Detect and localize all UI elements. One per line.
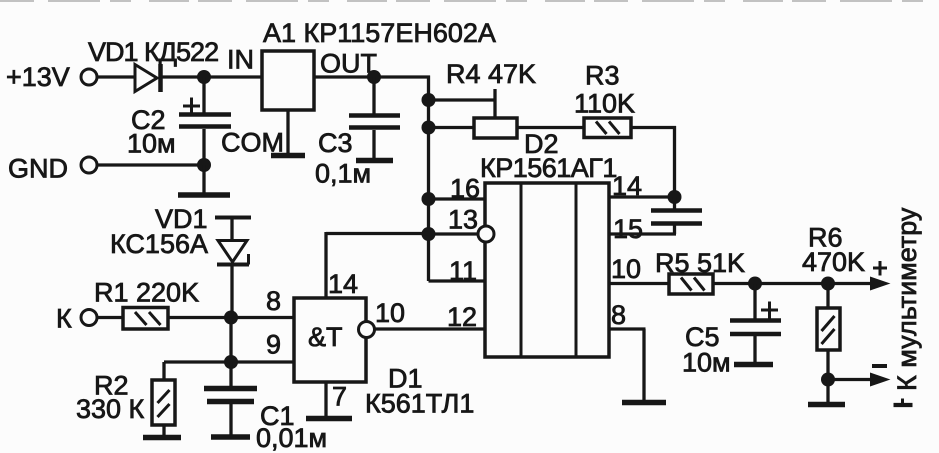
timing capacitor between pins 14 and 15: [651, 197, 702, 234]
svg-text:0,1м: 0,1м: [315, 159, 371, 189]
svg-text:12: 12: [447, 302, 477, 332]
svg-text:+13V: +13V: [6, 62, 70, 92]
wire OUT rail: [314, 75, 430, 78]
wire R1 to pin8 of D1: [168, 316, 294, 319]
torn paper top edge: [0, 0, 939, 2]
resistor R4: [429, 59, 537, 138]
svg-text:К561ТЛ1: К561ТЛ1: [365, 389, 474, 419]
wire R4 wiper tap: [429, 89, 496, 119]
wire VD1 to IN: [162, 75, 262, 78]
svg-text:330 К: 330 К: [76, 394, 145, 424]
svg-text:R3: R3: [585, 61, 620, 91]
pin 16: [429, 174, 486, 204]
svg-text:16: 16: [450, 174, 480, 204]
wire node down: [229, 318, 232, 363]
svg-text:0,01м: 0,01м: [256, 423, 327, 453]
resistor R3: [574, 61, 635, 138]
svg-text:10: 10: [611, 254, 641, 284]
svg-text:C3: C3: [318, 128, 353, 158]
svg-text:КР1561АГ1: КР1561АГ1: [480, 153, 617, 183]
svg-text:R5 51K: R5 51K: [655, 248, 745, 278]
svg-text:10м: 10м: [127, 129, 176, 159]
svg-text:8: 8: [266, 286, 281, 316]
pin 10 bubble: [359, 298, 406, 338]
node diode/IN junction: [197, 70, 211, 84]
svg-text:14: 14: [612, 171, 642, 201]
wire R5 to output arrow: [713, 282, 872, 285]
svg-text:8: 8: [611, 300, 626, 330]
wire right bus vertical: [427, 76, 430, 282]
pin 12 wire from gate output: [374, 302, 485, 332]
node bus pin13: [422, 227, 436, 241]
svg-text:7: 7: [332, 382, 347, 412]
wire K to R1: [97, 316, 123, 319]
ground R6: [808, 380, 845, 405]
gate D1 K561TL1: [294, 298, 474, 419]
svg-text:10: 10: [375, 298, 405, 328]
wire D1 pin14 to bus: [326, 232, 429, 298]
pin COM of A1: [221, 110, 305, 158]
svg-text:11: 11: [449, 256, 477, 286]
node C5 junction: [748, 277, 762, 291]
pin 7 ground: [306, 382, 352, 419]
ground C2: [178, 165, 230, 195]
node OUT junction: [367, 70, 381, 84]
node pin14 junction: [668, 190, 682, 204]
diode VD1 KD522: [88, 37, 218, 92]
svg-text:А1 КР1157ЕН602А: А1 КР1157ЕН602А: [263, 18, 496, 48]
resistor R6: [802, 223, 865, 380]
node K terminal: [56, 304, 97, 334]
node C1 junction: [224, 355, 238, 369]
wire R4 to R3: [517, 126, 584, 129]
wire +13V to VD1: [97, 75, 136, 78]
arrow output minus: [828, 366, 891, 387]
svg-text:14: 14: [328, 269, 358, 299]
node bus pin16: [422, 192, 436, 206]
zener VD1 KS156A: [110, 204, 251, 318]
node bus-R4 left: [422, 121, 436, 135]
pin 15: [609, 214, 676, 244]
capacitor C5: [682, 284, 781, 378]
svg-text:15: 15: [613, 214, 643, 244]
resistor R1: [94, 278, 199, 330]
node GND terminal: [8, 154, 97, 184]
svg-text:GND: GND: [8, 154, 68, 184]
arrow output plus: [870, 261, 891, 291]
svg-text:К: К: [56, 304, 72, 334]
resistor R2: [76, 362, 181, 438]
capacitor C1: [204, 362, 327, 453]
svg-text:9: 9: [266, 330, 281, 360]
pin 11: [429, 256, 486, 286]
node lower output junction: [821, 373, 835, 387]
node zener junction: [224, 311, 238, 325]
node bus-R4 tap: [422, 93, 436, 107]
stray mark bottom right: [894, 399, 913, 406]
node +13V terminal: [6, 62, 97, 92]
capacitor C3: [315, 77, 400, 189]
node GND junction: [197, 158, 211, 172]
pin 8 right to ground: [609, 300, 666, 403]
regulator A1 KR1157EN602A: [227, 18, 496, 110]
pin 13 with bubble: [429, 205, 495, 243]
wire GND to C2: [97, 163, 204, 166]
wire R3 to pin14 node: [631, 126, 676, 197]
svg-text:&Т: &Т: [308, 322, 343, 352]
svg-text:КС156А: КС156А: [110, 229, 208, 259]
svg-text:R4 47K: R4 47K: [446, 59, 536, 89]
svg-text:10м: 10м: [682, 348, 731, 378]
svg-text:VD1 КД522: VD1 КД522: [88, 37, 218, 67]
IC D2 KR1561AG1: [480, 129, 617, 357]
svg-text:R1 220K: R1 220K: [94, 278, 199, 308]
resistor R5: [655, 248, 745, 294]
pin 10 right: [609, 254, 669, 284]
node R6 junction: [821, 277, 835, 291]
svg-text:470K: 470K: [802, 247, 865, 277]
svg-text:110K: 110K: [574, 89, 635, 119]
svg-text:COM: COM: [221, 128, 284, 158]
pin 9 wire: [164, 360, 294, 363]
svg-text:IN: IN: [227, 45, 254, 75]
svg-text:13: 13: [448, 205, 478, 235]
svg-text:К мультиметру: К мультиметру: [892, 207, 922, 391]
capacitor C2: [127, 77, 231, 165]
pin 14 right: [609, 171, 676, 201]
